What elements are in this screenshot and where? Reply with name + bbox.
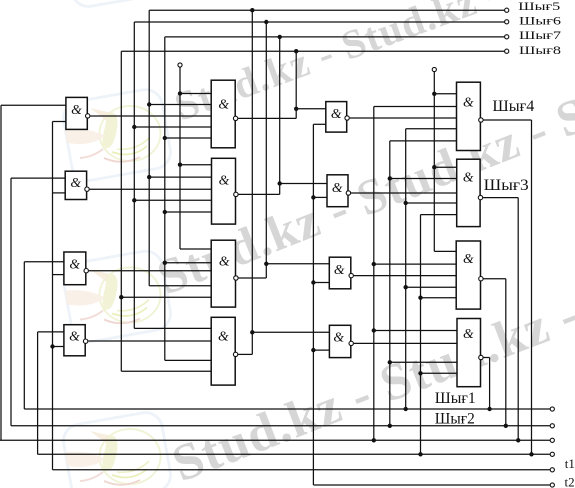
svg-text:&: &: [71, 102, 82, 117]
svg-text:Шығ6: Шығ6: [519, 16, 561, 28]
svg-text:&: &: [463, 326, 474, 341]
svg-text:Шығ3: Шығ3: [484, 177, 529, 194]
svg-text:&: &: [69, 256, 80, 271]
svg-text:Шығ1: Шығ1: [435, 390, 476, 407]
svg-text:&: &: [463, 170, 474, 185]
svg-text:&: &: [331, 106, 342, 121]
svg-text:&: &: [334, 262, 345, 277]
svg-text:&: &: [333, 329, 344, 344]
svg-text:&: &: [70, 175, 81, 190]
svg-text:&: &: [463, 251, 474, 266]
svg-text:Шығ5: Шығ5: [518, 1, 560, 13]
svg-text:&: &: [219, 254, 230, 269]
svg-text:&: &: [463, 95, 474, 110]
svg-text:Шығ8: Шығ8: [519, 45, 561, 57]
svg-text:&: &: [332, 180, 343, 195]
svg-text:t2: t2: [565, 474, 575, 488]
svg-text:&: &: [218, 328, 229, 343]
svg-text:Шығ2: Шығ2: [435, 411, 475, 428]
svg-text:&: &: [69, 329, 80, 344]
svg-text:&: &: [218, 97, 229, 112]
svg-text:Шығ4: Шығ4: [492, 98, 534, 115]
svg-text:Шығ7: Шығ7: [519, 30, 561, 42]
svg-text:t1: t1: [565, 456, 575, 471]
svg-text:&: &: [219, 172, 230, 187]
